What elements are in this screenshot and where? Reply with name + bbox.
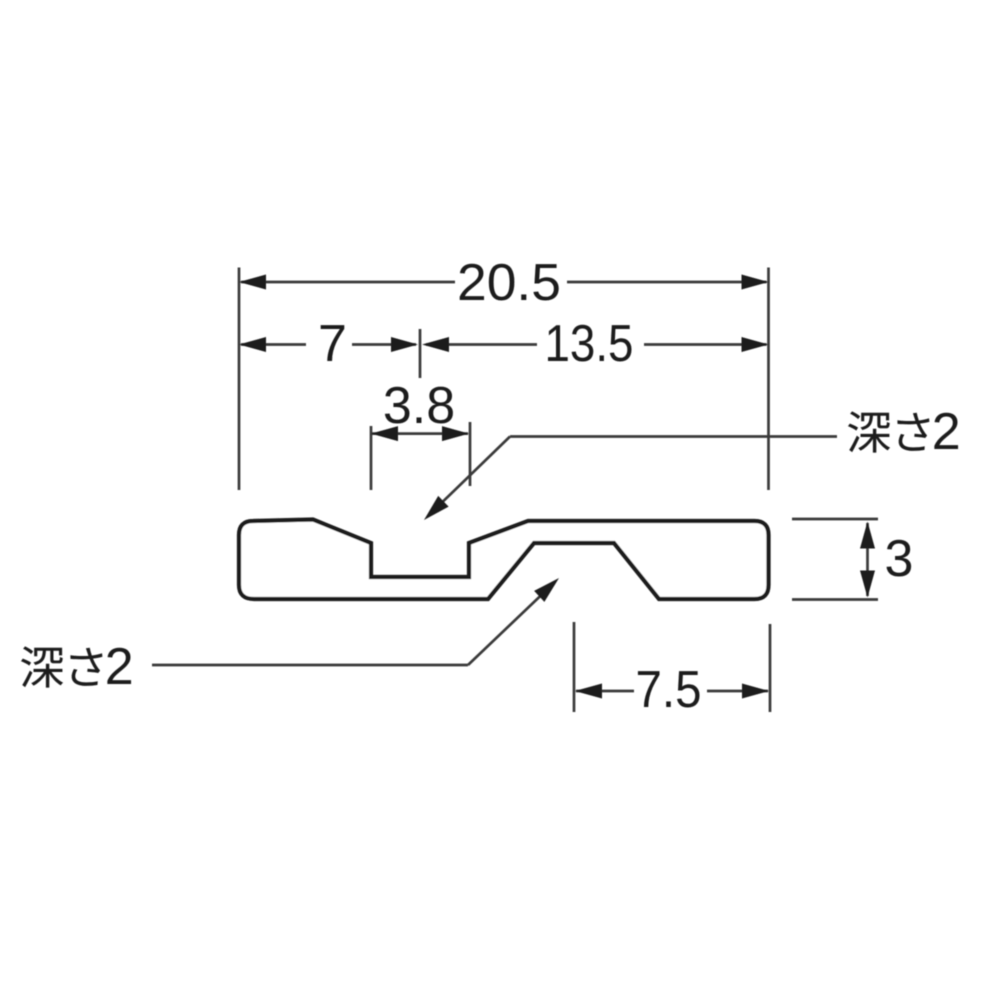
dim line 7.5 right segment [707, 690, 768, 693]
extension line thickness bottom [792, 598, 878, 601]
arrow 3.8 left [371, 426, 398, 441]
svg-text:2: 2 [105, 638, 134, 696]
profile cross-section outline [239, 520, 769, 600]
arrow 7.5 right [742, 684, 769, 699]
arrow 3 down [860, 571, 875, 598]
extension line 3.8 left (x=371) [370, 426, 373, 490]
svg-text:3.8: 3.8 [383, 377, 455, 435]
extension line 7.5 left (x=574) [573, 622, 576, 712]
leader depth2 lower horizontal [152, 664, 468, 667]
dim line 13.5 left segment [426, 343, 537, 346]
arrow 7 right [391, 337, 418, 352]
dim line 7.5 left segment [576, 690, 634, 693]
label 深さ2 (upper right) [848, 411, 929, 452]
arrow 7 left [239, 337, 266, 352]
extension line thickness top [792, 518, 878, 521]
extension line 7.5 right (x=770) [769, 624, 772, 712]
svg-text:7.5: 7.5 [636, 661, 702, 719]
arrow 3 up [860, 522, 875, 549]
extension line left (x=239) [238, 268, 241, 491]
svg-text:7: 7 [318, 315, 347, 373]
dim line 20.5 left segment [241, 281, 455, 284]
label 深さ2 (lower left) [21, 646, 102, 687]
arrow 7.5 left [575, 684, 602, 699]
leader depth2 upper horizontal [510, 435, 837, 438]
dim line 3.8 [372, 432, 468, 435]
extension line 3.8 right (x=470) [469, 422, 472, 486]
svg-text:20.5: 20.5 [457, 254, 561, 312]
arrow 20.5 left [239, 275, 266, 290]
dim line 7 left segment [241, 343, 306, 346]
svg-text:2: 2 [932, 403, 961, 461]
arrow 20.5 right [742, 275, 769, 290]
arrow 13.5 right [742, 337, 769, 352]
dim line 13.5 right segment [644, 343, 767, 346]
arrow 13.5 left [422, 337, 449, 352]
dim line 7 right segment [352, 343, 416, 346]
leader depth2 upper diagonal [428, 437, 510, 517]
svg-text:3: 3 [885, 530, 914, 588]
tick at notch centre (x=420) [419, 329, 422, 378]
leader depth2 lower diagonal [468, 582, 555, 665]
leader arrow into lower notch [534, 573, 564, 602]
dim line 3 vertical [866, 523, 869, 596]
extension line right (x=768.5) [767, 268, 770, 491]
svg-text:13.5: 13.5 [545, 315, 634, 373]
dim line 20.5 right segment [567, 281, 767, 284]
arrow 3.8 right [442, 426, 469, 441]
leader arrow into upper notch [419, 496, 449, 526]
